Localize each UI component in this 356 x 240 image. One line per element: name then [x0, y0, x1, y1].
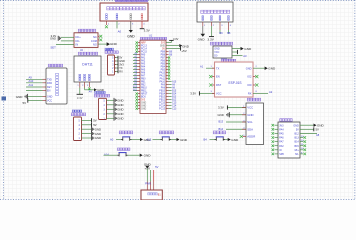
svg-text:NO: NO	[93, 42, 97, 46]
svg-text:GND: GND	[141, 109, 146, 111]
svg-text:GND: GND	[95, 132, 101, 136]
svg-text:A10: A10	[172, 81, 177, 84]
svg-text:B13: B13	[294, 137, 299, 140]
svg-text:IO: IO	[279, 149, 282, 152]
svg-text:PB14: PB14	[159, 94, 165, 96]
svg-text:GND: GND	[231, 138, 239, 142]
ground GND right of MCU	[179, 44, 182, 47]
wire smoke GND to ground	[232, 48, 240, 50]
svg-text:VCC: VCC	[247, 106, 253, 110]
svg-text:PA6: PA6	[141, 72, 146, 75]
svg-text:B13: B13	[172, 97, 177, 99]
ground GND below photoresistor pin3	[129, 30, 133, 33]
DHT11 pin3 no-connect X	[88, 87, 91, 90]
wires door connector to ground	[107, 99, 114, 101]
svg-text:5V: 5V	[93, 123, 97, 127]
wire bluetooth EN	[26, 90, 43, 92]
wire smoke D0 with net label	[232, 54, 243, 56]
ESP IO2 no-connect X	[253, 76, 256, 78]
wire and net label B8 on OLED pin4	[228, 30, 230, 34]
wire power gnd vertical	[146, 169, 148, 182]
svg-text:PA2: PA2	[279, 145, 284, 148]
wire MCU 3V3 to 3.3V rail	[166, 42, 171, 44]
wire GY-30 SDA with net label	[226, 128, 246, 130]
svg-text:GND: GND	[198, 38, 206, 42]
svg-text:PA6: PA6	[279, 137, 284, 140]
wire MCU GND pin	[166, 45, 179, 47]
power 3.3V below OLED pin2	[211, 26, 213, 36]
svg-text:PA9: PA9	[161, 84, 166, 87]
svg-text:PB10: PB10	[141, 88, 147, 90]
svg-text:GND: GND	[160, 46, 165, 48]
svg-text:GND: GND	[246, 66, 252, 70]
wire GY-30 VCC to 3.3V	[228, 107, 247, 109]
svg-text:IO0: IO0	[247, 83, 252, 87]
svg-text:A14: A14	[104, 153, 109, 157]
button title above A12	[159, 131, 161, 134]
svg-text:5V: 5V	[316, 128, 320, 132]
svg-text:EN: EN	[47, 90, 51, 93]
ground GND right of ESP	[265, 66, 268, 70]
svg-text:PA4: PA4	[279, 128, 284, 131]
svg-text:A10: A10	[29, 79, 34, 83]
wire relay IN	[56, 44, 74, 46]
svg-text:B13: B13	[219, 120, 224, 124]
wire bluetooth TXD	[26, 78, 43, 80]
ground symbol above power box	[145, 166, 149, 169]
ground GND right of voice module	[314, 124, 317, 127]
wire relay DC+	[61, 36, 74, 38]
power supply module box	[141, 190, 162, 200]
svg-text:GND: GND	[293, 124, 299, 127]
wire button A0 to ground	[132, 139, 141, 141]
svg-text:3V3: 3V3	[141, 100, 146, 102]
photoresistor module inner title	[107, 7, 110, 10]
download connector title MAX	[72, 110, 74, 112]
svg-text:+5V: +5V	[145, 166, 152, 170]
photoresistor pin1 no-connect X	[105, 25, 108, 28]
svg-text:PB1: PB1	[141, 82, 146, 84]
power module inner text	[148, 193, 150, 195]
svg-text:PC14: PC14	[141, 49, 148, 51]
wire relay NO to ground	[98, 43, 107, 45]
svg-text:GND: GND	[144, 154, 152, 158]
svg-text:3.3V: 3.3V	[144, 28, 150, 32]
svg-text:B4: B4	[204, 138, 208, 142]
wire DHT11 data pin	[84, 88, 86, 90]
relay module title	[78, 29, 80, 32]
download connector box	[74, 117, 82, 141]
svg-text:3.3V: 3.3V	[173, 37, 179, 41]
svg-text:IN: IN	[76, 42, 79, 46]
svg-text:GND: GND	[117, 99, 123, 103]
wire bluetooth VCC	[28, 100, 43, 102]
svg-text:B15: B15	[294, 145, 299, 148]
svg-text:PC13: PC13	[159, 109, 166, 111]
svg-text:PC14: PC14	[159, 106, 166, 108]
1.3 inch OLED module box	[197, 2, 233, 22]
svg-text:GND: GND	[117, 103, 123, 107]
wire smoke VCC to power	[232, 51, 237, 53]
MCU left wires with net labels	[133, 54, 137, 56]
bluetooth module title	[48, 64, 50, 67]
wire to button A14	[104, 154, 118, 156]
voice module box	[278, 122, 300, 158]
wire power vin vertical	[153, 170, 155, 182]
svg-text:GND: GND	[247, 113, 253, 117]
wire voice GND to ground	[300, 124, 313, 126]
svg-text:PA12: PA12	[159, 75, 165, 78]
svg-text:GND: GND	[180, 138, 188, 142]
button title row2	[117, 148, 119, 150]
svg-text:B10: B10	[133, 86, 138, 88]
svg-text:NRST: NRST	[141, 94, 148, 96]
wire bluetooth RXD	[26, 82, 43, 84]
svg-text:A0: A0	[118, 29, 122, 33]
svg-text:NC: NC	[93, 35, 97, 39]
svg-text:PC15: PC15	[141, 52, 148, 54]
svg-text:PB11: PB11	[141, 91, 147, 93]
svg-text:PA0: PA0	[141, 54, 146, 57]
ESP RST no-connect X	[212, 84, 215, 86]
ground GND after button A12	[177, 138, 180, 141]
svg-text:GND: GND	[95, 127, 101, 131]
svg-text:PB12: PB12	[159, 100, 165, 102]
svg-text:GND: GND	[47, 96, 53, 99]
svg-text:A11: A11	[29, 83, 34, 87]
ground GND right of smoke sensor	[241, 47, 244, 51]
wires download connector	[82, 119, 92, 121]
svg-text:5V: 5V	[23, 101, 27, 105]
svg-text:RX: RX	[119, 71, 123, 74]
light sensor module title	[247, 98, 249, 101]
smoke sensor box	[213, 46, 232, 58]
push button A0	[121, 139, 123, 141]
svg-text:GND: GND	[218, 113, 224, 117]
svg-text:PB8: PB8	[161, 55, 166, 57]
svg-text:DC-: DC-	[76, 39, 81, 43]
svg-text:NRF: NRF	[141, 43, 146, 45]
svg-text:PA3: PA3	[141, 63, 146, 66]
svg-text:B12: B12	[294, 133, 299, 136]
serial download connector box	[108, 55, 115, 75]
svg-text:B15: B15	[172, 91, 177, 93]
ground GND right of DHT11 data	[94, 88, 97, 91]
ESP8266 module designator U3	[221, 57, 222, 59]
ground GND after button B4	[228, 138, 231, 141]
wire power 5v vertical	[150, 170, 152, 182]
svg-text:C15: C15	[172, 103, 177, 105]
svg-text:PB2: PB2	[141, 85, 146, 87]
svg-text:PB5: PB5	[161, 64, 166, 66]
bluetooth left pin stubs	[43, 78, 47, 80]
svg-text:3.3V: 3.3V	[190, 92, 196, 96]
svg-text:PA8: PA8	[161, 87, 166, 90]
push button B4	[215, 139, 217, 141]
svg-text:DC+: DC+	[76, 35, 82, 39]
svg-text:PB7: PB7	[161, 58, 166, 60]
svg-text:PA1: PA1	[141, 57, 146, 60]
svg-text:BO0: BO0	[141, 97, 146, 99]
svg-text:DHT11: DHT11	[82, 63, 93, 67]
svg-text:SPK: SPK	[279, 153, 284, 156]
svg-text:SCL: SCL	[247, 120, 253, 124]
svg-text:C13: C13	[172, 109, 177, 111]
OLED module inner title	[201, 10, 204, 13]
wire bluetooth GND	[28, 96, 43, 98]
serial download connector title	[105, 48, 107, 50]
ESP EN no-connect X	[212, 76, 215, 78]
svg-text:PWR: PWR	[145, 182, 151, 185]
svg-text:PA5: PA5	[141, 69, 146, 72]
push button A12	[161, 139, 163, 141]
svg-text:GND: GND	[244, 47, 252, 51]
svg-text:5V: 5V	[155, 165, 158, 169]
door sensor connector title	[95, 91, 97, 93]
svg-text:RXD: RXD	[47, 82, 52, 85]
wires from serial connector	[115, 57, 118, 59]
svg-text:ADDR: ADDR	[247, 135, 255, 139]
svg-text:A1: A1	[200, 65, 204, 69]
svg-text:SET: SET	[50, 46, 56, 50]
svg-text:IO2: IO2	[247, 75, 252, 79]
svg-text:GND: GND	[16, 95, 23, 99]
svg-text:B9: B9	[219, 31, 223, 35]
wire ESP RX with net label A2	[253, 92, 268, 94]
svg-text:GND: GND	[117, 117, 123, 121]
svg-text:A3: A3	[243, 54, 247, 58]
wire relay DC-	[61, 40, 74, 42]
svg-text:GND: GND	[50, 37, 56, 41]
bluetooth module vertical name text	[56, 73, 59, 75]
svg-text:PB15: PB15	[159, 91, 165, 93]
svg-text:ESP-01S: ESP-01S	[228, 81, 241, 85]
wire to button B4	[210, 139, 215, 141]
svg-text:PA5: PA5	[279, 133, 284, 136]
svg-text:A2: A2	[269, 90, 273, 94]
svg-text:B12: B12	[172, 100, 177, 102]
svg-text:3.3V: 3.3V	[218, 106, 224, 110]
wire button A14 to ground	[128, 154, 140, 156]
svg-text:RST: RST	[216, 83, 222, 87]
ground GND after button A0	[140, 138, 143, 141]
photoresistor sensor module box	[100, 3, 148, 21]
svg-text:5V: 5V	[93, 119, 97, 123]
svg-text:PB13: PB13	[159, 97, 165, 99]
svg-text:TX: TX	[216, 66, 220, 70]
power and ground labels for download connector	[91, 118, 93, 122]
svg-text:5V: 5V	[162, 49, 165, 51]
wire ESP GND to ground	[253, 67, 265, 69]
power 3.3V on photoresistor pin4	[140, 28, 145, 30]
wire GY-30 SCL with net label	[226, 121, 246, 123]
button title above B4	[213, 131, 216, 134]
wire MCU 5V pin	[166, 48, 181, 50]
door sensor connector box	[99, 98, 107, 119]
svg-text:RX: RX	[248, 92, 252, 96]
button title above A0	[119, 131, 121, 134]
wire to button A0	[116, 139, 121, 141]
svg-text:GND: GND	[268, 67, 276, 71]
wire to button A12	[153, 139, 161, 141]
power 5V left of bluetooth	[27, 98, 29, 102]
svg-text:GND: GND	[141, 106, 146, 108]
wire ESP VCC to 3.3V	[200, 92, 215, 94]
MCU stm32c8t6 board title	[140, 37, 142, 39]
wire button B4 to ground	[225, 139, 228, 141]
svg-text:+5V: +5V	[181, 49, 186, 53]
svg-text:PA11: PA11	[160, 78, 166, 81]
svg-text:PA7: PA7	[279, 141, 284, 144]
svg-text:SDA: SDA	[247, 127, 253, 131]
wire GY-30 GND to ground	[230, 114, 247, 116]
svg-text:MI-: MI-	[295, 153, 299, 156]
svg-text:B14: B14	[294, 141, 299, 144]
wire button A12 to ground	[171, 139, 177, 141]
ground symbols for door connector	[113, 98, 115, 103]
relay COM no-connect X	[98, 39, 100, 41]
svg-text:COM: COM	[91, 39, 97, 43]
svg-text:PC13: PC13	[141, 46, 148, 48]
MCU right pins B9 B8 net labels	[166, 51, 169, 53]
svg-text:GND: GND	[117, 108, 123, 112]
svg-text:PA2: PA2	[141, 60, 146, 63]
MCU right no-connect pins	[166, 57, 168, 59]
MCU stm32 board box U1	[140, 40, 166, 113]
bluetooth module box	[46, 68, 67, 104]
ESP IO0 no-connect X	[253, 84, 256, 86]
relay module box	[74, 33, 98, 48]
svg-text:3V3: 3V3	[161, 43, 166, 45]
svg-text:GND: GND	[141, 103, 146, 105]
svg-text:PB4: PB4	[161, 67, 166, 69]
MCU left no-connect X pins top	[138, 42, 140, 44]
ground GND right of relay	[107, 42, 110, 46]
ESP-01S module box	[215, 62, 254, 97]
ESP8266 module title	[221, 59, 223, 61]
svg-text:MI+: MI+	[295, 149, 300, 152]
svg-text:PB3: PB3	[161, 70, 166, 72]
svg-text:B14: B14	[219, 127, 224, 131]
photoresistor module pin stubs	[106, 21, 108, 25]
temperature humidity module title	[78, 52, 80, 55]
photoresistor module pin names/numbers	[106, 14, 108, 15]
svg-text:3.3V: 3.3V	[77, 96, 83, 100]
svg-text:B8: B8	[227, 31, 231, 35]
power 5V on voice module	[300, 128, 314, 130]
push button A14	[117, 154, 119, 156]
voice module left pins	[275, 124, 279, 126]
photoresistor sensor module J-LIGHT title	[115, 0, 116, 1]
power box pin stubs	[146, 182, 148, 191]
wire and net label B9 on OLED pin3	[219, 30, 221, 34]
svg-text:PA10: PA10	[159, 81, 165, 84]
svg-text:PC15: PC15	[159, 103, 166, 105]
ground GND after button A14	[140, 154, 143, 157]
DHT11 pin names	[79, 74, 81, 75]
smoke sensor module title	[210, 42, 212, 45]
svg-text:C14: C14	[172, 106, 177, 108]
svg-text:VCC: VCC	[47, 100, 52, 103]
svg-text:VCC: VCC	[216, 92, 222, 96]
svg-text:A9: A9	[29, 75, 33, 79]
svg-text:GND: GND	[110, 42, 118, 46]
voice module title	[280, 119, 282, 122]
GY-30 ADDR no-connect X	[243, 136, 247, 138]
MCU right wires with net labels	[166, 81, 169, 83]
svg-text:3V3: 3V3	[279, 124, 284, 127]
voice module right no-connect pins	[300, 137, 304, 139]
wire ESP TX with net label A1	[206, 67, 215, 69]
svg-text:PB0: PB0	[141, 79, 146, 81]
wire bluetooth KEY	[26, 86, 43, 88]
svg-text:PB6: PB6	[161, 61, 166, 63]
svg-text:3.3V: 3.3V	[207, 38, 214, 42]
svg-text:GND: GND	[117, 112, 123, 116]
svg-text:GND: GND	[127, 35, 135, 39]
svg-text:A12: A12	[147, 138, 152, 142]
MCU left no-connect X pins bottom	[138, 93, 140, 95]
svg-text:PA4: PA4	[141, 66, 146, 69]
svg-text:GND: GND	[95, 136, 101, 140]
svg-text:PA7: PA7	[141, 75, 146, 78]
svg-text:PA15: PA15	[159, 72, 165, 75]
svg-text:A8: A8	[316, 133, 320, 137]
light sensor GY-30 box	[246, 103, 264, 145]
DHT11 module box	[74, 56, 101, 82]
svg-text:A0: A0	[110, 138, 114, 142]
OLED pin stubs	[202, 22, 204, 26]
ground GND below OLED pin1	[202, 26, 204, 34]
svg-text:EN: EN	[216, 75, 220, 79]
DHT11 pin stubs	[79, 82, 81, 88]
svg-text:B14: B14	[172, 94, 177, 96]
svg-text:5V: 5V	[296, 128, 299, 131]
ground GND left of bluetooth	[27, 94, 29, 99]
svg-text:PB9: PB9	[161, 52, 166, 54]
OLED pin numbers	[202, 16, 204, 17]
relay NC no-connect X	[98, 35, 100, 37]
power 3.3V below DHT11 pin1	[79, 88, 81, 95]
wire voice pin3 with net label	[300, 132, 317, 134]
